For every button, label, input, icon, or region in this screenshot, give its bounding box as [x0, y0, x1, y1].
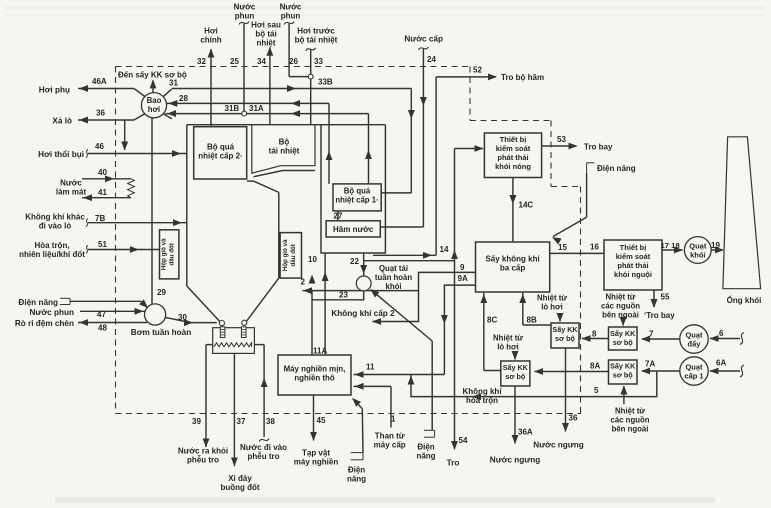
drum downcomer to pump	[151, 117, 153, 304]
label 31B	[225, 104, 240, 113]
riser mill to windbox	[309, 275, 316, 356]
svg-text:36: 36	[569, 414, 578, 423]
label Nuoc ra khoi pheu tro	[178, 447, 228, 465]
svg-text:Máy nghiền mịn,: Máy nghiền mịn,	[284, 365, 346, 374]
svg-text:Hơi trước: Hơi trước	[297, 27, 335, 36]
svg-text:năng: năng	[347, 475, 366, 484]
svg-text:10: 10	[308, 255, 317, 264]
steam drum (Bao hoi)	[141, 93, 166, 118]
wire dien nang to air heater	[552, 173, 587, 245]
svg-text:bộ tái: bộ tái	[255, 30, 276, 39]
label 22	[350, 257, 359, 266]
label 8	[592, 330, 597, 339]
wire heat from boiler to pre-1	[557, 313, 564, 322]
wire 47 Nuoc phun to pump	[80, 308, 145, 315]
label 31	[169, 79, 178, 88]
svg-text:đẩy: đẩy	[688, 340, 702, 349]
stub 27 between superheater-1 and economizer	[337, 211, 339, 221]
label 14	[440, 245, 449, 254]
svg-text:Hơi sau: Hơi sau	[251, 21, 281, 30]
label Khong khi hoa tron	[462, 387, 502, 405]
label Hoi truoc bo tai nhiet	[295, 27, 338, 45]
svg-text:ba cấp: ba cấp	[500, 264, 525, 273]
svg-text:Hòa trộn,: Hòa trộn,	[34, 241, 69, 250]
label 8A	[590, 362, 600, 371]
wire 15/16 to cold AQCS	[550, 252, 604, 254]
svg-text:khói: khói	[385, 282, 401, 291]
superheater-1 box (Bo qua nhiet cap 1)	[333, 184, 381, 211]
recirculation fan (Quat tai tuan hoan khoi)	[356, 276, 371, 291]
svg-text:47: 47	[97, 310, 106, 319]
svg-text:lò hơi: lò hơi	[541, 303, 563, 312]
wire 55 fly ash from cold AQCS	[651, 290, 658, 308]
svg-text:40: 40	[98, 168, 107, 177]
svg-text:14C: 14C	[519, 201, 534, 210]
svg-text:27: 27	[334, 212, 343, 221]
dashed system boundary (top)	[116, 66, 471, 68]
svg-text:chính: chính	[200, 36, 221, 45]
svg-text:bên ngoài: bên ngoài	[602, 311, 639, 320]
label 48	[98, 324, 107, 333]
cooling-water coil	[128, 179, 135, 198]
svg-text:Rò rỉ đệm chèn: Rò rỉ đệm chèn	[15, 319, 74, 328]
boiler top edge	[187, 124, 386, 126]
pre-airheater 1 (Say KK so bo)	[551, 323, 579, 348]
svg-text:6: 6	[719, 329, 724, 338]
wire 8	[582, 335, 609, 342]
label Nhiet tu cac nguon ben ngoai (bottom)	[611, 407, 650, 434]
label Khong khi cap 2	[331, 309, 395, 318]
electric supply ticks (pump)	[60, 298, 70, 304]
label 16	[590, 243, 599, 252]
label 8B	[527, 316, 537, 325]
wire 7B other air into furnace	[86, 219, 187, 227]
hatched stub left	[220, 327, 225, 338]
svg-text:Hơi: Hơi	[204, 27, 218, 36]
wire 14 riser / 54 ash drop	[451, 145, 483, 450]
svg-text:tái nhiệt: tái nhiệt	[269, 147, 300, 156]
label 46A	[92, 77, 107, 86]
wire 25 spray water	[239, 22, 249, 112]
label Dien nang (fan)	[416, 443, 435, 461]
svg-text:15: 15	[558, 243, 567, 252]
label 19	[711, 241, 720, 250]
svg-text:Xỉ đáy: Xỉ đáy	[228, 474, 252, 483]
label Xa lo	[52, 117, 72, 126]
wire 19 to stack	[711, 247, 724, 254]
svg-text:Nước phun: Nước phun	[30, 308, 75, 317]
label 36	[96, 109, 105, 118]
svg-text:Không khí: Không khí	[462, 387, 502, 396]
wire 46A Hoi phu	[78, 85, 134, 92]
drum spoke SE	[163, 114, 172, 119]
FD fan (Quat day)	[680, 325, 708, 353]
label 2	[301, 278, 306, 287]
drum spoke SW (to 36 line)	[134, 114, 145, 120]
wire dien nang to mill	[352, 398, 363, 453]
svg-text:Hơi phụ: Hơi phụ	[39, 85, 70, 94]
wire 23 fan to mill riser	[312, 291, 364, 300]
svg-text:lò hơi: lò hơi	[497, 343, 519, 352]
svg-text:36A: 36A	[518, 428, 533, 437]
label 40	[98, 168, 107, 177]
svg-text:19: 19	[711, 241, 720, 250]
label Nuoc phun (pump)	[30, 308, 75, 317]
label Dien nang (pump)	[18, 298, 58, 307]
label Tro bo ham	[501, 73, 544, 82]
wire 51 fuel mix	[86, 246, 160, 254]
svg-text:46A: 46A	[92, 77, 107, 86]
wire 6	[710, 333, 745, 345]
svg-text:28: 28	[179, 94, 188, 103]
svg-text:cấp 1: cấp 1	[684, 372, 703, 381]
label Tap vat may nghien	[294, 449, 339, 467]
wire 39 water out of ash hopper	[203, 345, 213, 448]
svg-text:33: 33	[314, 57, 323, 66]
svg-text:8A: 8A	[590, 362, 600, 371]
label 17 18	[661, 241, 681, 250]
label Nuoc cap	[404, 35, 443, 44]
wire 37 bottom slag	[231, 353, 238, 466]
svg-text:33B: 33B	[318, 78, 333, 87]
svg-text:phát thải: phát thải	[617, 261, 648, 270]
label Hoa tron nhien lieu/khi dot	[19, 241, 85, 259]
svg-text:Quạt: Quạt	[689, 242, 707, 251]
label Hoi sau bo tai nhiet	[251, 21, 281, 48]
dashed system boundary (left)	[115, 67, 117, 414]
ash box	[213, 328, 255, 354]
svg-text:Nước: Nước	[60, 179, 82, 188]
wire 6A	[710, 365, 745, 377]
economizer box (Ham nuoc)	[326, 221, 380, 237]
wire 24 feedwater	[380, 47, 428, 227]
label 25	[230, 57, 239, 66]
label 51	[98, 240, 107, 249]
label 55	[661, 293, 670, 302]
svg-text:41: 41	[98, 188, 107, 197]
label 36	[569, 414, 578, 423]
water seal zigzag	[214, 343, 252, 347]
svg-text:Nước: Nước	[280, 3, 302, 12]
svg-text:54: 54	[459, 436, 468, 445]
smoke fan (Quat khoi)	[684, 237, 711, 264]
svg-text:32: 32	[197, 57, 206, 66]
svg-text:sơ bộ: sơ bộ	[555, 334, 575, 343]
svg-text:Sấy không khí: Sấy không khí	[485, 255, 540, 264]
label 14C	[519, 201, 534, 210]
svg-text:Nhiệt từ: Nhiệt từ	[615, 407, 645, 416]
drum spoke NE	[163, 89, 171, 96]
wire 36 condensate from pre-1	[562, 348, 569, 432]
drum spoke NW (to 46A line)	[134, 89, 145, 97]
label 52	[473, 66, 482, 75]
label 29	[157, 288, 166, 297]
svg-text:48: 48	[98, 324, 107, 333]
label 30	[178, 313, 187, 322]
wire 8C	[480, 293, 500, 371]
label 47	[97, 310, 106, 319]
circulation pump (Bom tuan hoan)	[145, 304, 166, 325]
label 5	[594, 386, 599, 395]
hopper outlet circle right	[242, 320, 247, 325]
wire 30 pump to hopper	[165, 317, 217, 326]
label Than tu may cap	[374, 432, 406, 450]
svg-text:9A: 9A	[458, 274, 468, 283]
label Den say KK so bo	[118, 71, 187, 80]
svg-text:Điện: Điện	[417, 443, 434, 452]
svg-text:máy nghiền: máy nghiền	[294, 458, 339, 467]
label Dien nang (mill)	[347, 466, 366, 484]
wire 32 main steam	[208, 49, 215, 127]
svg-text:nhiệt: nhiệt	[256, 39, 275, 48]
dashed system boundary (bottom)	[116, 413, 582, 415]
furnace right hopper slope	[246, 278, 278, 321]
hatched stub right	[241, 327, 246, 338]
electric supply ticks (mill)	[351, 453, 363, 460]
wire external heat into pre-2	[620, 317, 627, 326]
backpass duct	[321, 125, 385, 253]
right windbox (Hop gio va dau dot)	[280, 233, 301, 279]
svg-text:Hộp gió và: Hộp gió và	[282, 239, 289, 271]
wire 53 fly ash	[542, 143, 578, 150]
wire 36A condensate from pre-3	[512, 386, 519, 444]
label 11	[366, 363, 375, 372]
svg-text:26: 26	[289, 57, 298, 66]
wire node down into reheater	[310, 79, 312, 125]
svg-text:17 18: 17 18	[661, 241, 681, 250]
wire 17/18 to smoke fan	[662, 247, 683, 254]
svg-text:22: 22	[350, 257, 359, 266]
svg-text:Sấy KK: Sấy KK	[610, 362, 636, 371]
label 28	[179, 94, 188, 103]
svg-text:hòa trộn: hòa trộn	[466, 396, 498, 405]
svg-text:phát thải: phát thải	[497, 153, 528, 162]
svg-text:bên ngoài: bên ngoài	[612, 425, 649, 434]
electric supply ticks (fan)	[424, 430, 435, 437]
wire 22 gas to recirculation fan	[360, 253, 367, 276]
label Nuoc lam mat	[56, 179, 87, 197]
svg-text:Bơm tuần hoàn: Bơm tuần hoàn	[131, 328, 191, 337]
svg-text:55: 55	[661, 293, 670, 302]
svg-text:dầu đốt: dầu đốt	[168, 243, 175, 265]
left windbox (Hop gio va dau dot)	[160, 230, 179, 279]
wire 41 cooling water out	[82, 194, 131, 201]
wire 40 cooling water in	[82, 175, 131, 182]
label 41	[98, 188, 107, 197]
label 9	[460, 263, 465, 272]
superheater-2 box (Bo qua nhiet cap 2)	[194, 127, 247, 179]
wire 9A primary air	[441, 285, 476, 374]
svg-text:kiểm soát: kiểm soát	[496, 144, 531, 153]
svg-text:phun: phun	[235, 12, 255, 21]
air heater box (Say khong khi ba cap)	[476, 242, 550, 292]
svg-text:đi vào lò: đi vào lò	[39, 222, 72, 231]
svg-text:khói nóng: khói nóng	[495, 162, 531, 171]
svg-text:các nguồn: các nguồn	[611, 416, 650, 425]
hopper outlet circle left	[219, 321, 224, 326]
riser mill to backpass (10)	[322, 253, 329, 355]
label 10	[308, 255, 317, 264]
svg-text:Không khí khác: Không khí khác	[25, 213, 85, 222]
svg-text:Tro bộ hãm: Tro bộ hãm	[501, 73, 544, 82]
label 36A	[518, 428, 533, 437]
svg-text:23: 23	[339, 291, 348, 300]
svg-text:Hâm nước: Hâm nước	[333, 225, 374, 234]
svg-text:Nước cấp: Nước cấp	[404, 35, 443, 44]
svg-text:Nhiệt từ: Nhiệt từ	[493, 334, 523, 343]
svg-text:45: 45	[317, 416, 326, 425]
svg-text:Nhiệt từ: Nhiệt từ	[606, 293, 636, 302]
svg-text:37: 37	[237, 417, 246, 426]
svg-text:làm mát: làm mát	[56, 188, 87, 197]
svg-text:Nước: Nước	[234, 3, 256, 12]
svg-text:Xả lò: Xả lò	[52, 117, 72, 126]
svg-text:2: 2	[301, 278, 306, 287]
svg-text:phễu tro: phễu tro	[187, 456, 219, 465]
label Nhiet tu lo hoi (3)	[493, 334, 523, 352]
label 6A	[716, 359, 726, 368]
label 6	[719, 329, 724, 338]
pre-airheater 4 (Say KK so bo)	[609, 360, 638, 384]
wire 31B/31A line	[166, 110, 369, 117]
label 33B	[318, 78, 333, 87]
dashed system boundary (right, stepped)	[470, 67, 581, 414]
svg-text:25: 25	[230, 57, 239, 66]
svg-text:Ống khói: Ống khói	[727, 295, 762, 305]
svg-text:31B: 31B	[225, 104, 240, 113]
mill box (May nghien min nghien tho)	[278, 355, 351, 395]
svg-text:dầu đốt: dầu đốt	[290, 244, 297, 266]
svg-text:Bộ quá: Bộ quá	[344, 187, 371, 196]
wire 11 air to mill	[354, 371, 445, 378]
wire 8B	[519, 293, 551, 326]
svg-text:Hơi thổi bụi: Hơi thổi bụi	[38, 149, 84, 159]
pre-airheater 2 (Say KK so bo)	[609, 327, 638, 350]
label Ong khoi	[727, 295, 762, 305]
svg-text:51: 51	[98, 240, 107, 249]
svg-text:39: 39	[192, 417, 201, 426]
wire 38 water into ash hopper	[254, 345, 269, 442]
label Dien nang (top)	[597, 164, 636, 173]
wire 7	[641, 336, 680, 343]
svg-text:Nước ngưng: Nước ngưng	[533, 441, 583, 450]
wire dien nang to pump	[70, 299, 148, 308]
label 53	[557, 135, 566, 144]
svg-text:Tro: Tro	[447, 459, 460, 468]
svg-text:31: 31	[169, 79, 178, 88]
label Bom tuan hoan	[131, 328, 191, 337]
wire external heat into pre-4	[620, 386, 627, 405]
svg-text:52: 52	[473, 66, 482, 75]
wire 52 economizer ash riser	[373, 74, 497, 259]
label 26	[289, 57, 298, 66]
wire 5 mixing air	[408, 371, 657, 400]
wire 34 hot reheat	[266, 47, 273, 125]
furnace left wall	[186, 125, 188, 286]
svg-text:phun: phun	[281, 12, 301, 21]
svg-text:tuần hoàn: tuần hoàn	[375, 273, 412, 282]
label Nuoc phun (25)	[234, 3, 256, 21]
svg-text:6A: 6A	[716, 359, 726, 368]
pre-airheater 3 (Say KK so bo)	[501, 361, 530, 386]
svg-text:8: 8	[592, 330, 597, 339]
svg-text:7B: 7B	[95, 214, 105, 223]
riser x329 superheater-1 to line 28	[326, 103, 333, 183]
svg-text:Tạp vật: Tạp vật	[302, 449, 330, 458]
label Tro bay (55)	[644, 311, 675, 320]
svg-text:7A: 7A	[645, 360, 655, 369]
svg-text:9: 9	[460, 263, 465, 272]
label Nhiet tu lo hoi (1)	[537, 294, 567, 312]
label Nuoc di vao pheu tro	[240, 443, 287, 461]
svg-text:Quạt tái: Quạt tái	[379, 264, 408, 273]
label 37	[237, 417, 246, 426]
svg-text:bộ tái nhiệt: bộ tái nhiệt	[295, 36, 338, 45]
svg-text:buồng đốt: buồng đốt	[220, 483, 259, 492]
label 32	[197, 57, 206, 66]
label 7A	[645, 360, 655, 369]
svg-text:nhiệt cấp 1·: nhiệt cấp 1·	[335, 196, 378, 205]
wire 8A	[534, 368, 609, 375]
label 39	[192, 417, 201, 426]
svg-text:Tro bay: Tro bay	[584, 143, 613, 152]
svg-text:14: 14	[440, 245, 449, 254]
svg-text:Điện năng: Điện năng	[597, 164, 636, 173]
wire 7A	[641, 368, 680, 375]
wire 36 Xa lo	[78, 117, 134, 124]
svg-text:46: 46	[95, 142, 104, 151]
wire 33 spray before reheater	[306, 48, 316, 74]
label 46	[95, 142, 104, 151]
svg-text:Than từ: Than từ	[375, 432, 405, 441]
svg-text:Sấy KK: Sấy KK	[552, 325, 578, 334]
label Khong khi khac di vao lo	[25, 213, 85, 231]
electric supply ticks (air heater)	[587, 163, 595, 173]
svg-text:ʽTro bay: ʽTro bay	[644, 311, 675, 320]
PA fan (Quat cap 1)	[680, 357, 708, 385]
svg-text:30: 30	[178, 313, 187, 322]
label Xi day buong dot	[220, 474, 259, 492]
svg-text:Sấy KK: Sấy KK	[503, 363, 529, 372]
svg-text:36: 36	[96, 109, 105, 118]
svg-text:29: 29	[157, 288, 166, 297]
svg-text:Điện: Điện	[348, 466, 365, 475]
wire heat from boiler to pre-3	[512, 351, 519, 360]
svg-text:nhiên liệu/khí đốt: nhiên liệu/khí đốt	[19, 250, 85, 259]
label 8C	[487, 316, 497, 325]
label 1	[391, 415, 396, 424]
svg-text:phễu tro: phễu tro	[248, 452, 280, 461]
svg-text:31A: 31A	[249, 104, 264, 113]
svg-text:24: 24	[427, 55, 436, 64]
cold emission control box (Thiet bi kiem soat phat thai khoi nguoi)	[604, 240, 662, 290]
label 7	[649, 330, 654, 339]
junction node 33/26	[308, 74, 313, 79]
label Tro bay (53)	[584, 143, 613, 152]
label 54	[459, 436, 468, 445]
wire 45 mill rejects	[310, 395, 317, 441]
wire 26 spray water	[284, 22, 308, 77]
label 7B	[95, 214, 105, 223]
label 9A	[458, 274, 468, 283]
svg-text:nhiệt cấp 2·: nhiệt cấp 2·	[198, 152, 242, 161]
junction node 31B/31A	[242, 111, 247, 116]
svg-text:Không khí cấp 2: Không khí cấp 2	[331, 309, 395, 318]
wire 28 line	[167, 100, 329, 107]
wire 31/33B drum line to superheater-1	[172, 85, 415, 193]
wire 48 Ro ri dem chen	[78, 319, 147, 326]
svg-text:5: 5	[594, 386, 599, 395]
